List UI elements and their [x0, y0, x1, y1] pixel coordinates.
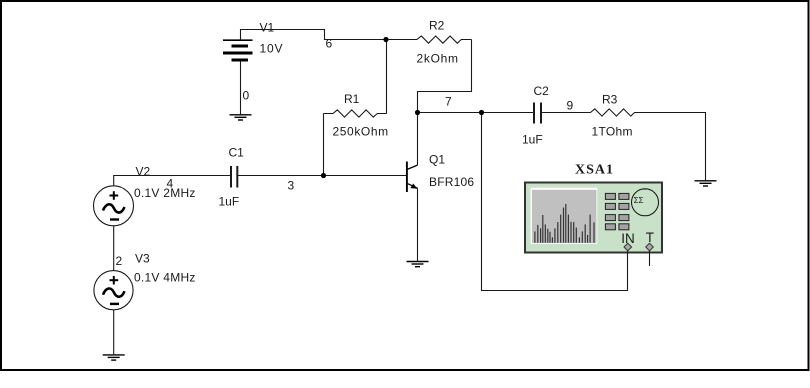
- svg-text:R2: R2: [429, 19, 445, 33]
- wire R3 to ground: [635, 113, 706, 181]
- svg-text:V3: V3: [135, 252, 150, 266]
- AC source V2: [94, 186, 134, 226]
- svg-text:1uF: 1uF: [522, 133, 543, 147]
- svg-text:9: 9: [567, 98, 574, 112]
- XSA1 IN terminal: [624, 243, 632, 251]
- XSA1 display spectrum bars: [535, 204, 594, 243]
- XSA1 buttons: [605, 193, 629, 229]
- svg-text:1TOhm: 1TOhm: [592, 125, 633, 139]
- spectrum analyzer XSA1: [525, 183, 662, 253]
- svg-text:Q1: Q1: [429, 153, 445, 167]
- svg-text:0.1V 2MHz: 0.1V 2MHz: [134, 186, 196, 200]
- svg-text:XSA1: XSA1: [575, 163, 614, 178]
- svg-text:R3: R3: [602, 93, 618, 107]
- junction base node: [321, 173, 326, 178]
- svg-text:ΣΣ: ΣΣ: [634, 196, 644, 205]
- svg-text:250kOhm: 250kOhm: [333, 125, 389, 139]
- battery V1: [223, 40, 253, 60]
- wire V3 to ground: [113, 310, 115, 355]
- svg-text:3: 3: [288, 179, 295, 193]
- wire battery top to node 6: [241, 30, 387, 41]
- junction node 9 branch: [479, 110, 484, 115]
- wire battery bottom to ground: [240, 62, 242, 115]
- wire C1 to Q1 base: [238, 175, 407, 177]
- wire collector node to C2: [418, 112, 534, 114]
- ground (V3): [103, 355, 125, 360]
- capacitor C1: [231, 166, 237, 188]
- wire R1 right up to node 6: [386, 40, 388, 114]
- resistor R1: [324, 110, 387, 117]
- wire Q1 emitter to ground: [417, 188, 419, 261]
- svg-text:R1: R1: [344, 92, 360, 106]
- svg-text:V2: V2: [136, 165, 151, 179]
- svg-text:BFR106: BFR106: [429, 175, 474, 189]
- svg-text:C1: C1: [229, 146, 245, 160]
- ground (R3): [695, 181, 717, 186]
- svg-text:0: 0: [243, 89, 250, 103]
- ground (battery): [230, 115, 252, 120]
- resistor R2: [386, 36, 472, 43]
- svg-text:7: 7: [445, 94, 452, 108]
- wire base line left (V2 to C1): [114, 176, 230, 186]
- XSA1 knob: [632, 188, 659, 216]
- svg-text:6: 6: [326, 37, 333, 51]
- junction node 7: [415, 110, 420, 115]
- svg-text:T: T: [646, 230, 654, 245]
- ground (Q1): [407, 262, 429, 267]
- capacitor C2: [534, 103, 541, 124]
- resistor R3: [591, 109, 635, 116]
- svg-text:V1: V1: [260, 21, 275, 35]
- wire C2 to R3: [542, 112, 591, 114]
- wire node 9 to XSA1 IN: [482, 113, 628, 291]
- transistor Q1: [407, 162, 418, 193]
- XSA1 T terminal: [646, 243, 654, 251]
- wire V2 to V3: [113, 226, 115, 271]
- svg-text:C2: C2: [534, 84, 550, 98]
- svg-text:2: 2: [116, 254, 123, 268]
- wire R2 right return to collector node: [418, 40, 472, 166]
- svg-text:2kOhm: 2kOhm: [417, 52, 459, 66]
- svg-text:10V: 10V: [260, 42, 284, 56]
- AC source V3: [94, 271, 133, 310]
- junction node 6: [383, 37, 388, 42]
- wire T terminal stub: [649, 251, 651, 266]
- svg-text:1uF: 1uF: [219, 195, 240, 209]
- wire R1 left down to base wire: [323, 114, 325, 176]
- svg-text:0.1V 4MHz: 0.1V 4MHz: [134, 271, 196, 285]
